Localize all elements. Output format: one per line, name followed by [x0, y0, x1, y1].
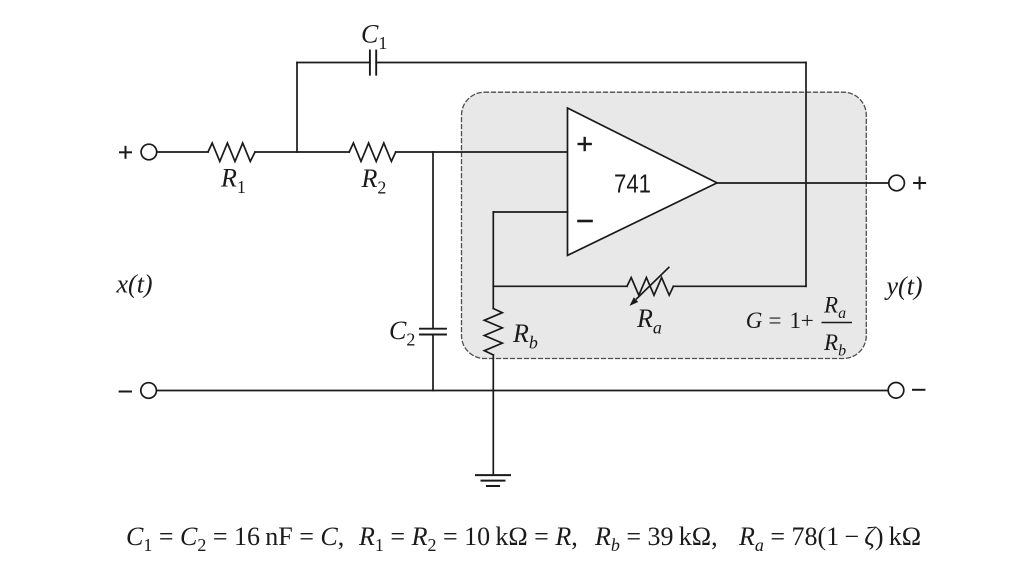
- gain formula G = 1 + Ra/Rb: [746, 293, 852, 360]
- component values equation: [126, 522, 921, 555]
- minus sign bottom-left terminal: [120, 391, 131, 393]
- plus sign top-left terminal: [120, 147, 131, 158]
- wire C2 to bottom rail: [432, 335, 434, 391]
- op-amp enclosure dashed gray box: [462, 92, 867, 358]
- svg-text:=: =: [769, 308, 782, 333]
- resistor R2: [349, 143, 396, 161]
- svg-text:y(t): y(t): [884, 272, 923, 301]
- wire inverting input: [493, 211, 567, 213]
- capacitor C2: [420, 329, 446, 335]
- wire C1 to output riser: [376, 62, 806, 64]
- resistor Rb: [484, 309, 502, 355]
- op-amp minus input marker: [579, 220, 592, 223]
- bottom rail wire: [157, 390, 889, 392]
- ground: [476, 475, 510, 486]
- svg-text:R2: R2: [361, 164, 387, 198]
- wire feedback right segment: [673, 285, 806, 287]
- output terminal top-right: [889, 175, 905, 191]
- svg-text:C2: C2: [389, 316, 415, 350]
- op-amp plus input marker: [579, 138, 591, 150]
- wire feedback left segment: [493, 285, 627, 287]
- svg-text:G: G: [746, 308, 763, 333]
- svg-text:C1 = C2 = 16 nF = C,: C1 = C2 = 16 nF = C,: [126, 522, 344, 555]
- op-amp U1 741: [568, 108, 718, 255]
- svg-text:x(t): x(t): [116, 270, 153, 299]
- wire R1 to R2: [255, 151, 349, 153]
- svg-text:Rb = 39 kΩ,: Rb = 39 kΩ,: [594, 522, 718, 555]
- wire R2 to op-amp noninverting input: [396, 151, 568, 153]
- svg-text:+: +: [801, 308, 814, 333]
- wire input terminal to R1: [157, 151, 208, 153]
- input terminal top-left: [141, 144, 157, 160]
- capacitor C1: [370, 51, 376, 75]
- wire op-amp output: [717, 182, 889, 184]
- output terminal bottom-right: [888, 383, 904, 399]
- resistor R1: [208, 143, 255, 161]
- svg-text:R1 = R2 = 10 kΩ = R,: R1 = R2 = 10 kΩ = R,: [358, 522, 578, 555]
- plus sign top-right terminal: [914, 178, 925, 189]
- wire inverting riser: [492, 212, 494, 286]
- arrow across Ra: [630, 267, 669, 306]
- minus sign bottom-right terminal: [913, 389, 924, 391]
- resistor Ra: [627, 278, 673, 296]
- svg-text:C1: C1: [361, 19, 387, 53]
- input terminal bottom-left: [141, 383, 157, 399]
- svg-text:Ra = 78(1 − ζ) kΩ: Ra = 78(1 − ζ) kΩ: [738, 522, 921, 555]
- wire top left to C1: [297, 62, 370, 64]
- wire feedback node to Rb: [492, 286, 494, 308]
- svg-text:741: 741: [614, 169, 651, 199]
- wire Rb to ground: [492, 355, 494, 475]
- wire output riser (top to feedback): [805, 63, 807, 287]
- svg-text:R1: R1: [220, 164, 246, 198]
- wire node B riser to C2: [432, 152, 434, 329]
- svg-text:1: 1: [790, 308, 802, 333]
- wire node A riser to C1: [296, 63, 298, 153]
